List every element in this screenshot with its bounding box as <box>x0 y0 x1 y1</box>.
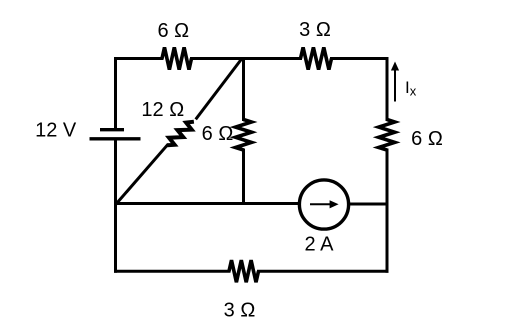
wire: top-right segment <box>332 57 388 60</box>
wire: top-middle segment <box>192 57 301 60</box>
resistor R5 6 ohm (right) <box>379 120 395 151</box>
svg-text:6 Ω: 6 Ω <box>411 128 443 150</box>
current source I1 circle <box>299 180 348 229</box>
svg-text:12 V: 12 V <box>35 120 77 142</box>
wire: middle vertical branch lower <box>242 150 245 204</box>
resistor R1 6 ohm (top left) <box>162 47 192 69</box>
svg-text:12 Ω: 12 Ω <box>141 99 184 121</box>
wire: right rail lower <box>386 150 389 271</box>
wire: bottom-right segment <box>259 270 388 273</box>
wire: diagonal lower segment <box>117 145 168 203</box>
resistor R2 3 ohm (top) <box>301 47 332 69</box>
svg-text:Ix: Ix <box>405 78 417 99</box>
wire: middle rail left of source <box>116 202 300 205</box>
resistor R3 12 ohm (diagonal) <box>167 122 194 146</box>
current source I1 arrow <box>310 203 331 205</box>
svg-text:6 Ω: 6 Ω <box>157 20 189 42</box>
battery V1 short plate <box>100 128 124 131</box>
wire: left rail lower <box>114 141 117 272</box>
wire: right rail upper <box>386 59 389 120</box>
svg-text:2 A: 2 A <box>305 234 335 256</box>
wire: diagonal upper segment <box>197 59 242 118</box>
battery V1 long plate <box>90 137 141 140</box>
resistor R6 3 ohm (bottom) <box>229 260 259 282</box>
wire: middle vertical branch upper <box>242 59 245 120</box>
svg-text:3 Ω: 3 Ω <box>224 300 256 322</box>
svg-text:6 Ω: 6 Ω <box>202 123 234 145</box>
current arrow Ix <box>394 69 396 102</box>
wire: top-left segment <box>116 57 163 60</box>
wire: bottom-left segment <box>116 270 230 273</box>
wire: left rail upper <box>114 59 117 129</box>
wire: middle rail right of source <box>349 203 387 206</box>
svg-text:3 Ω: 3 Ω <box>299 19 331 41</box>
resistor R4 6 ohm (middle) <box>236 120 252 151</box>
